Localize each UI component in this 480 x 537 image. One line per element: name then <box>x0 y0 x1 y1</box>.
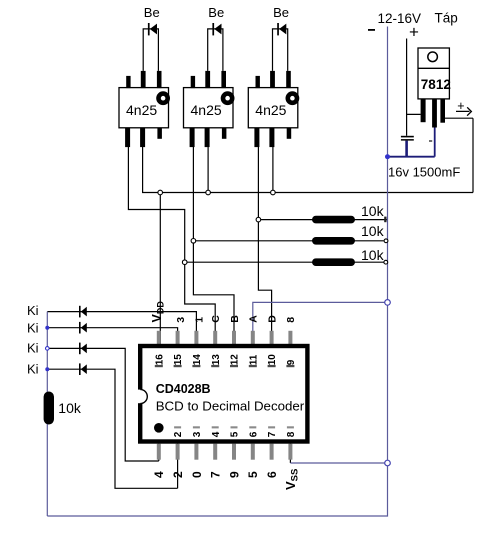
svg-text:9: 9 <box>286 359 297 365</box>
svg-text:10k: 10k <box>361 223 385 239</box>
svg-text:CD4028B: CD4028B <box>156 382 211 396</box>
svg-text:+: + <box>409 23 419 42</box>
svg-text:7812: 7812 <box>421 77 451 92</box>
svg-text:11: 11 <box>248 354 259 365</box>
svg-text:Ki: Ki <box>27 321 39 336</box>
svg-text:16: 16 <box>154 354 165 366</box>
svg-text:4: 4 <box>211 431 222 437</box>
svg-text:3: 3 <box>175 317 187 323</box>
svg-text:2: 2 <box>173 431 184 437</box>
svg-text:5: 5 <box>230 431 241 437</box>
svg-text:6: 6 <box>265 471 279 478</box>
svg-text:4n25: 4n25 <box>191 102 222 118</box>
svg-text:4n25: 4n25 <box>126 102 157 118</box>
svg-text:8: 8 <box>286 431 297 437</box>
svg-text:15: 15 <box>173 354 184 366</box>
svg-text:4n25: 4n25 <box>255 102 286 118</box>
svg-text:8: 8 <box>285 317 297 323</box>
svg-text:Ki: Ki <box>27 362 39 377</box>
svg-text:B: B <box>229 315 241 323</box>
svg-text:A: A <box>248 315 260 323</box>
svg-text:2: 2 <box>171 471 185 478</box>
svg-text:10k: 10k <box>361 247 385 263</box>
svg-text:D: D <box>266 315 278 323</box>
svg-text:Be: Be <box>144 5 160 20</box>
svg-text:9: 9 <box>227 471 241 478</box>
svg-text:Ki: Ki <box>27 340 39 355</box>
svg-text:4: 4 <box>152 471 166 478</box>
svg-text:14: 14 <box>192 354 203 366</box>
svg-text:10: 10 <box>267 354 278 366</box>
svg-text:16v 1500mF: 16v 1500mF <box>388 164 460 179</box>
svg-text:5: 5 <box>246 471 260 478</box>
svg-text:Be: Be <box>208 5 224 20</box>
svg-text:BCD to Decimal Decoder: BCD to Decimal Decoder <box>156 398 305 413</box>
svg-text:0: 0 <box>190 471 204 478</box>
svg-text:10k: 10k <box>58 400 82 416</box>
svg-text:Ki: Ki <box>27 303 39 318</box>
svg-text:1: 1 <box>194 317 206 323</box>
svg-text:Táp: Táp <box>435 10 458 25</box>
svg-text:3: 3 <box>192 431 203 437</box>
svg-text:C: C <box>210 315 222 323</box>
svg-text:7: 7 <box>267 431 278 437</box>
svg-text:Be: Be <box>273 5 289 20</box>
svg-text:10k: 10k <box>361 203 385 219</box>
svg-text:7: 7 <box>209 471 223 478</box>
svg-text:13: 13 <box>211 354 222 366</box>
svg-text:12: 12 <box>230 354 241 366</box>
svg-text:6: 6 <box>248 431 259 437</box>
